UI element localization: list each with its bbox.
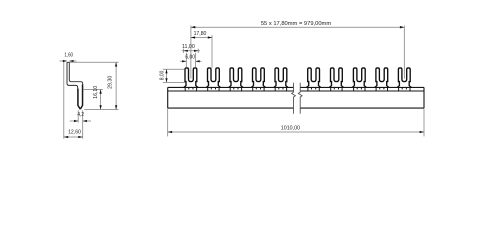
dimension 11,00 fork width [182,44,200,53]
fork 3 base slot [230,87,241,91]
dimension 17,80 pitch [191,31,212,68]
busbar rail body [168,87,424,108]
fork 6 base slot [308,87,319,91]
svg-text:1010,00: 1010,00 [281,126,300,132]
fork contact 4 [251,68,265,88]
dimension 1010,00 overall length [168,109,424,137]
dimension 4,2 blade width [70,110,91,138]
fork contact 1 [184,68,198,88]
fork contact 6 [307,68,321,88]
dimension 55 x 17,80mm = 979,00mm [191,21,404,79]
dimension 16,10 lower height (rotated) [84,86,103,110]
fork contact 9 [375,68,389,88]
fork contact 2 [206,68,220,88]
fork contact 7 [329,68,343,88]
fork contact 3 [229,68,243,88]
svg-text:16,10: 16,10 [93,86,99,99]
fork contact 10 [397,68,411,88]
svg-text:11,00: 11,00 [182,44,195,50]
break line right [298,83,302,114]
dimension 29,30 overall height (rotated) [69,62,118,109]
fork 4 base slot [253,87,264,91]
dimension 12,60 profile depth [64,129,83,138]
svg-text:17,80: 17,80 [194,31,207,37]
dimension 1,60 material thickness [60,53,77,63]
fork contact 5 [274,68,288,88]
svg-text:1,60: 1,60 [64,53,73,59]
svg-text:4,2: 4,2 [77,112,84,118]
wire shared left extension line (1,60 / 12,60 dims) [63,61,65,138]
fork 8 base slot [354,87,365,91]
profile fork blade seen edge-on (dark) [78,85,83,109]
dimension 6,00 slot [180,53,201,68]
fork 2 base slot [208,87,219,91]
fork 1 base slot [185,87,196,91]
profile pin cross-section (Z-bend strip) [67,62,83,109]
svg-text:12,60: 12,60 [68,129,81,135]
svg-text:55 x 17,80mm = 979,00mm: 55 x 17,80mm = 979,00mm [261,21,331,27]
break line left [292,83,296,114]
fork contact 8 [352,68,366,88]
fork 5 base slot [275,87,286,91]
svg-text:8,00: 8,00 [160,71,166,81]
fork 10 base slot [399,87,410,91]
fork 9 base slot [376,87,387,91]
svg-text:29,30: 29,30 [107,76,113,89]
svg-text:6,00: 6,00 [185,55,195,61]
dimension 8,00 contact height (rotated) [160,69,186,82]
fork 7 base slot [331,87,342,91]
